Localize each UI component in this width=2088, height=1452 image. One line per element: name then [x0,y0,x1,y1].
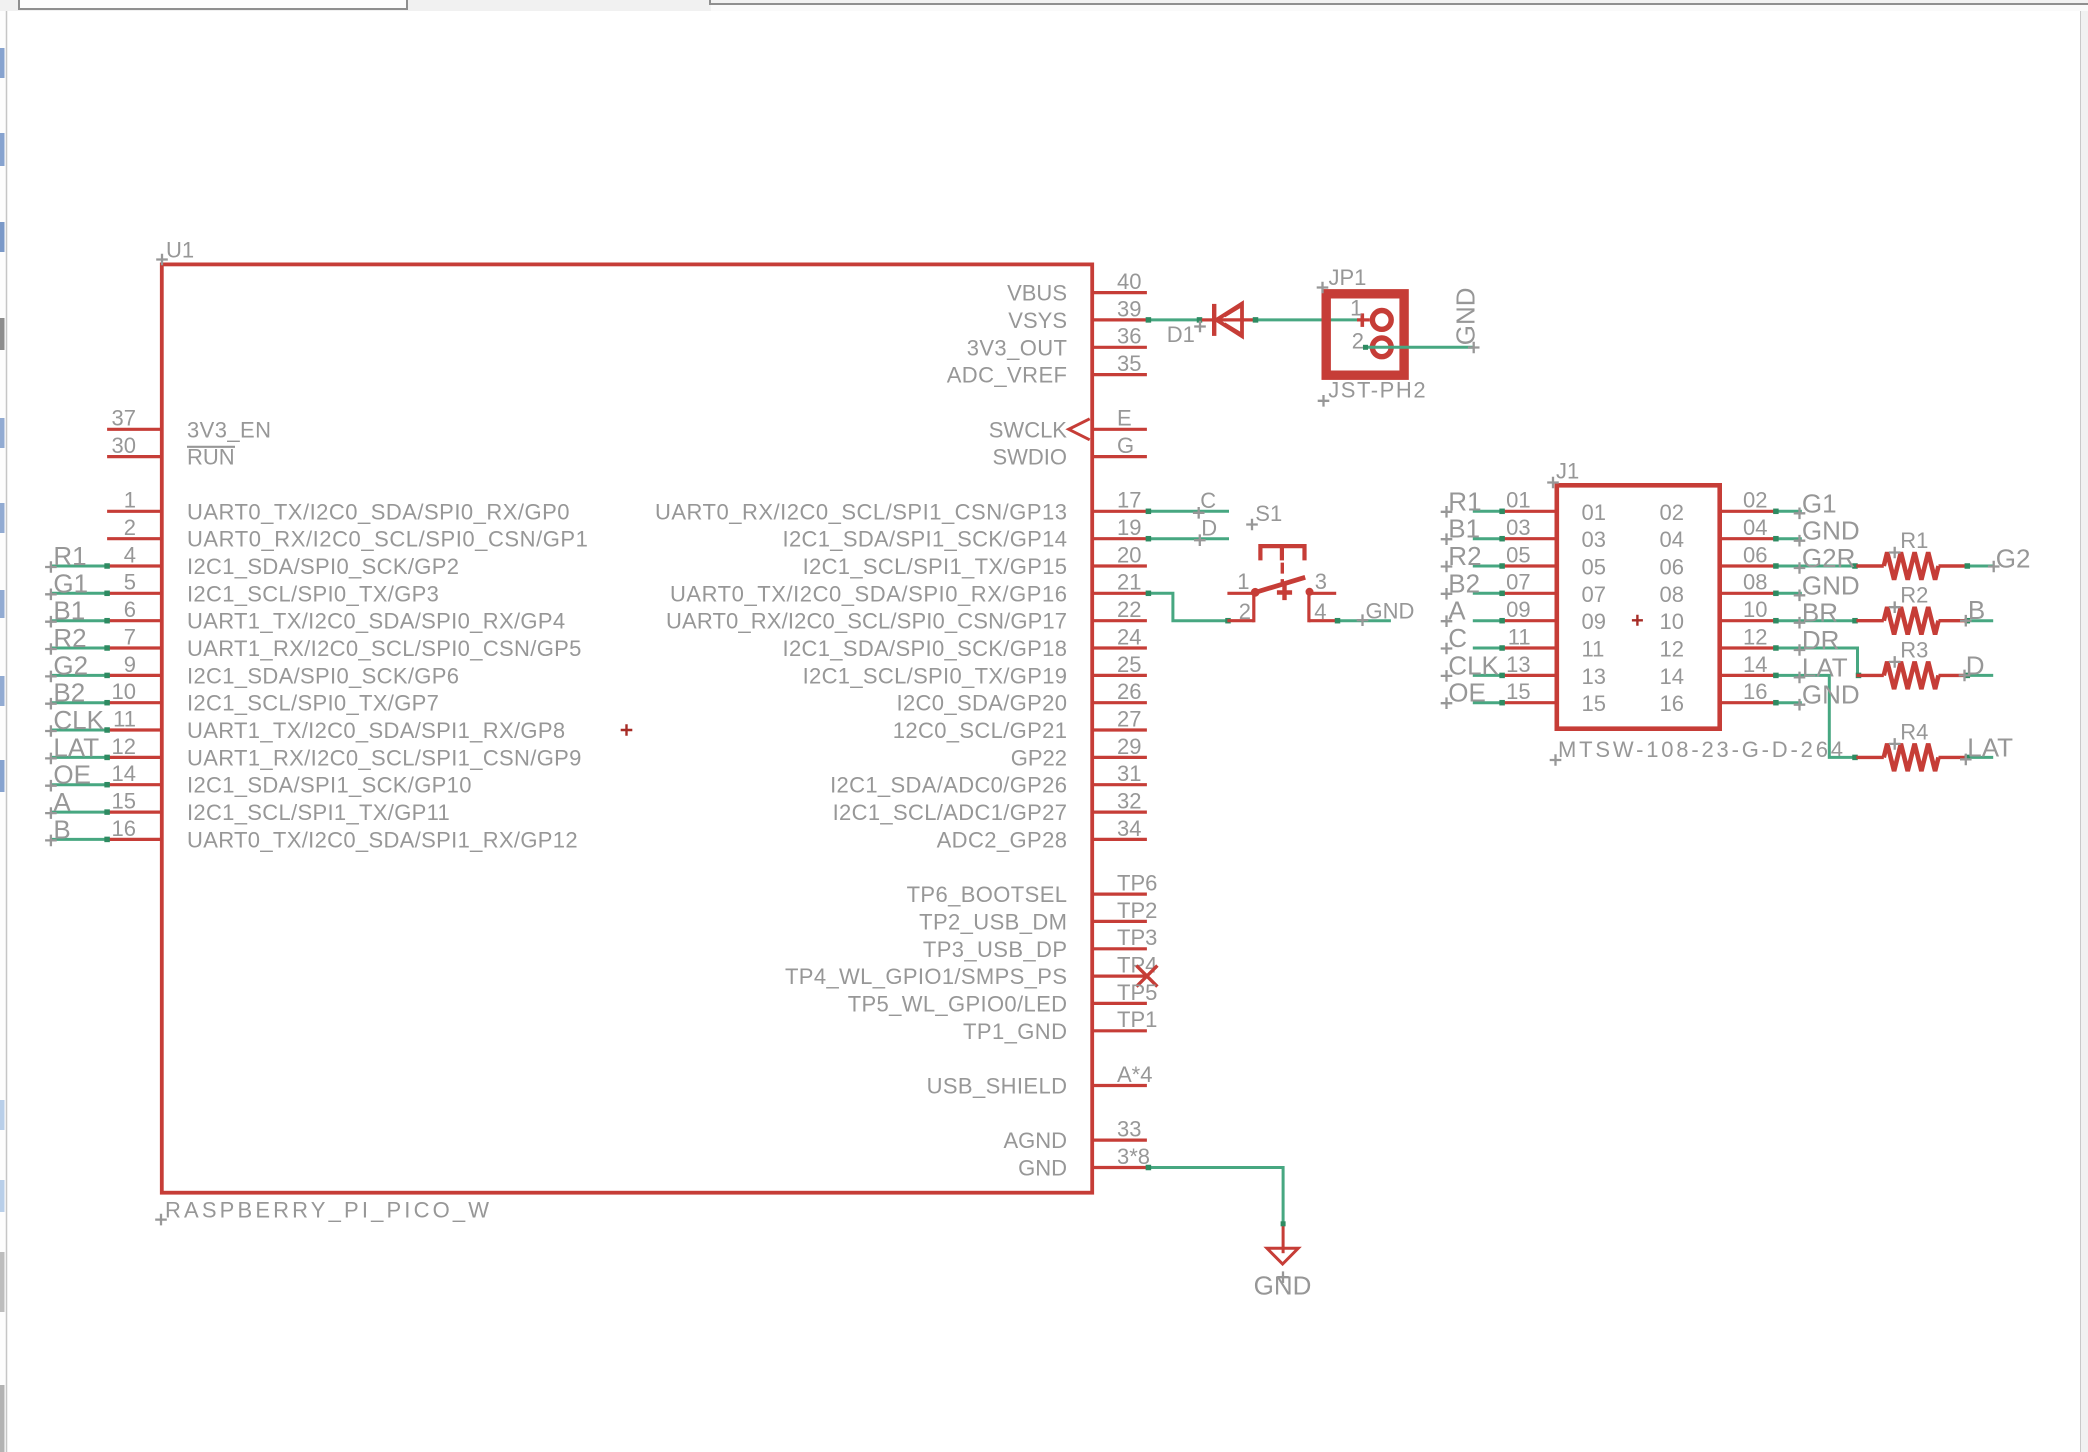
svg-text:1: 1 [1237,569,1249,594]
svg-text:6: 6 [124,597,136,622]
J1 pin 04 (right) [1720,537,1775,540]
svg-text:26: 26 [1117,679,1141,704]
svg-text:DR: DR [1802,625,1840,655]
svg-text:UART1_TX/I2C0_SDA/SPI1_RX/GP8: UART1_TX/I2C0_SDA/SPI1_RX/GP8 [187,718,565,743]
svg-text:32: 32 [1117,789,1141,814]
J1 pin 11 (left) [1502,646,1557,649]
svg-text:C: C [1200,488,1216,513]
wire net A to J1 [1473,619,1502,622]
svg-text:I2C1_SDA/ADC0/GP26: I2C1_SDA/ADC0/GP26 [830,773,1067,798]
wire U1 GP16 to S1 pin 2 [1147,593,1228,620]
svg-text:4: 4 [1314,599,1326,624]
svg-text:TP6_BOOTSEL: TP6_BOOTSEL [907,882,1067,907]
wire net DR from J1 to R3 [1774,648,1861,675]
U1 pin 30 (RUN) [107,455,162,458]
svg-text:E: E [1117,406,1132,431]
svg-text:15: 15 [112,789,136,814]
svg-text:I2C1_SDA/SPI0_SCK/GP18: I2C1_SDA/SPI0_SCK/GP18 [783,636,1068,661]
S1 pin 3 [1309,592,1336,595]
J1 pin 09 (left) [1502,619,1557,622]
svg-text:AGND: AGND [1003,1128,1067,1153]
J1 pin 12 (right) [1720,646,1775,649]
wire net GND from J1 pin 16 [1774,701,1801,704]
tab 2 outline [710,0,2088,4]
wire net A to U1 [51,811,108,814]
svg-text:B1: B1 [53,596,85,626]
svg-text:TP3_USB_DP: TP3_USB_DP [923,937,1067,962]
wire U1 GND to ground symbol [1147,1168,1283,1223]
J1 pin 14 (right) [1720,674,1775,677]
svg-text:4: 4 [124,542,136,567]
J1 pin 01 (left) [1502,510,1557,513]
svg-text:CLK: CLK [1448,650,1499,680]
svg-text:12C0_SCL/GP21: 12C0_SCL/GP21 [893,718,1067,743]
browser tab strip background [0,0,2088,11]
svg-text:29: 29 [1117,734,1141,759]
U1 pin 27 (12C0_SCL/GP21) [1092,728,1147,731]
wire net G1 from J1 [1774,510,1801,513]
svg-text:2: 2 [1352,328,1364,353]
svg-text:B2: B2 [1448,568,1480,598]
U1 pin G (SWDIO) [1092,455,1147,458]
svg-text:TP5_WL_GPIO0/LED: TP5_WL_GPIO0/LED [848,991,1067,1016]
U1 pin 22 (UART0_RX/I2C0_SCL/SPI0_CSN/GP17) [1092,619,1147,622]
U1 pin 20 (I2C1_SCL/SPI1_TX/GP15) [1092,564,1147,567]
svg-text:ADC_VREF: ADC_VREF [947,363,1067,388]
wire net B2 to J1 [1473,592,1502,595]
svg-text:G2: G2 [1996,544,2031,574]
U1 pin TP4 (TP4_WL_GPIO1/SMPS_PS) [1092,974,1147,977]
svg-text:12: 12 [112,734,136,759]
svg-text:01: 01 [1582,500,1606,525]
svg-text:R1: R1 [53,541,86,571]
svg-text:3V3_OUT: 3V3_OUT [967,335,1067,360]
svg-text:LAT: LAT [1967,733,2013,763]
svg-text:UART1_RX/I2C0_SCL/SPI0_CSN/GP5: UART1_RX/I2C0_SCL/SPI0_CSN/GP5 [187,636,581,661]
svg-text:R1: R1 [1448,486,1481,516]
U1 pin 15 (I2C1_SCL/SPI1_TX/GP11) [107,810,162,813]
svg-text:TP1_GND: TP1_GND [963,1019,1067,1044]
J1 pin 07 (left) [1502,592,1557,595]
wire net B1 to J1 [1473,537,1502,540]
J1 pin 05 (left) [1502,564,1557,567]
svg-text:UART0_RX/I2C0_SCL/SPI1_CSN/GP1: UART0_RX/I2C0_SCL/SPI1_CSN/GP13 [655,499,1067,524]
U1 pin 29 (GP22) [1092,756,1147,759]
svg-text:24: 24 [1117,624,1141,649]
svg-text:UART0_RX/I2C0_SCL/SPI0_CSN/GP1: UART0_RX/I2C0_SCL/SPI0_CSN/GP1 [187,527,588,552]
connector JP1 body [1326,294,1404,375]
svg-text:7: 7 [124,624,136,649]
wire net C to J1 [1473,647,1502,650]
svg-text:03: 03 [1582,527,1606,552]
svg-text:3V3_EN: 3V3_EN [187,417,271,442]
svg-text:TP2_USB_DM: TP2_USB_DM [919,909,1067,934]
U1 pin 4 (I2C1_SDA/SPI0_SCK/GP2) [107,564,162,567]
svg-text:TP6: TP6 [1117,871,1157,896]
svg-text:31: 31 [1117,761,1141,786]
svg-text:16: 16 [112,816,136,841]
svg-text:SWDIO: SWDIO [992,445,1067,470]
svg-text:TP2: TP2 [1117,898,1157,923]
svg-text:11: 11 [113,706,136,731]
svg-text:07: 07 [1506,570,1530,595]
connector J1 body [1557,485,1720,728]
wire net BR from J1 to R2 [1774,619,1856,622]
svg-text:1: 1 [1350,296,1362,321]
S1 pin 4 [1309,619,1336,622]
svg-text:TP1: TP1 [1117,1007,1157,1032]
svg-text:UART0_RX/I2C0_SCL/SPI0_CSN/GP1: UART0_RX/I2C0_SCL/SPI0_CSN/GP17 [666,609,1067,634]
svg-text:02: 02 [1660,500,1684,525]
diode D1 [1202,318,1212,321]
resistor R4 [1856,756,1883,759]
svg-text:G: G [1117,433,1134,458]
wire VSYS to D1 [1147,318,1202,321]
svg-text:37: 37 [112,406,136,431]
svg-text:35: 35 [1117,351,1141,376]
wire net GND from J1 pin 08 [1774,592,1801,595]
U1 pin TP5 (TP5_WL_GPIO0/LED) [1092,1002,1147,1005]
JP1 pin 1 pad [1357,318,1370,321]
svg-text:3: 3 [1315,569,1327,594]
svg-text:JST-PH2: JST-PH2 [1328,378,1425,403]
svg-text:OE: OE [53,760,91,790]
JP1 pin 2 pad [1372,338,1391,357]
svg-text:07: 07 [1582,582,1606,607]
svg-text:BR: BR [1802,598,1838,628]
U1 pin TP1 (TP1_GND) [1092,1029,1147,1032]
svg-text:GND: GND [1450,287,1480,345]
U1 pin 39 (VSYS) [1092,318,1147,321]
svg-text:22: 22 [1117,597,1141,622]
svg-text:I2C1_SDA/SPI0_SCK/GP6: I2C1_SDA/SPI0_SCK/GP6 [187,663,459,688]
U1 pin 25 (I2C1_SCL/SPI0_TX/GP19) [1092,674,1147,677]
U1 pin 26 (I2C0_SDA/GP20) [1092,701,1147,704]
svg-text:I2C1_SCL/SPI0_TX/GP7: I2C1_SCL/SPI0_TX/GP7 [187,691,439,716]
svg-text:I2C1_SCL/SPI1_TX/GP15: I2C1_SCL/SPI1_TX/GP15 [803,554,1067,579]
svg-text:S1: S1 [1255,501,1282,526]
wire net R1 to U1 [51,565,108,568]
svg-text:14: 14 [1660,664,1684,689]
svg-text:I2C1_SCL/ADC1/GP27: I2C1_SCL/ADC1/GP27 [833,800,1067,825]
wire net OE to U1 [51,783,108,786]
svg-text:R3: R3 [1900,637,1928,662]
S1 pin 2 [1227,619,1253,622]
svg-text:G2: G2 [53,650,88,680]
svg-text:12: 12 [1743,624,1767,649]
wire net B to U1 [51,838,108,841]
svg-text:GND: GND [1366,599,1415,624]
wire S1 pin 4 to GND label [1336,619,1391,622]
svg-text:02: 02 [1743,488,1767,513]
U1 pin TP6 (TP6_BOOTSEL) [1092,892,1147,895]
svg-text:R1: R1 [1900,528,1928,553]
svg-text:10: 10 [1743,597,1767,622]
J1 pin 08 (right) [1720,592,1775,595]
U1 origin cross [621,724,633,736]
svg-text:VBUS: VBUS [1007,281,1067,306]
svg-text:B2: B2 [53,678,85,708]
J1 pin 06 (right) [1720,564,1775,567]
svg-text:U1: U1 [166,238,194,263]
U1 pin 10 (I2C1_SCL/SPI0_TX/GP7) [107,701,162,704]
svg-text:25: 25 [1117,652,1141,677]
wire net CLK to U1 [51,729,108,732]
svg-text:I2C1_SCL/SPI0_TX/GP3: I2C1_SCL/SPI0_TX/GP3 [187,581,439,606]
U1 pin 33 (AGND) [1092,1138,1147,1141]
wire net CLK to J1 [1473,674,1502,677]
svg-text:GND: GND [1018,1156,1067,1181]
svg-text:I2C1_SCL/SPI1_TX/GP11: I2C1_SCL/SPI1_TX/GP11 [187,800,450,825]
U1 pin TP3 (TP3_USB_DP) [1092,947,1147,950]
svg-text:14: 14 [112,761,136,786]
svg-text:06: 06 [1660,555,1684,580]
U1 pin 17 (UART0_RX/I2C0_SCL/SPI1_CSN/GP13) [1092,510,1147,513]
wire net LAT from resistor [1966,756,1993,759]
svg-text:GND: GND [1802,680,1860,710]
wire net G2 to U1 [51,674,108,677]
svg-text:TP3: TP3 [1117,925,1157,950]
svg-text:USB_SHIELD: USB_SHIELD [927,1074,1067,1099]
svg-text:3*8: 3*8 [1117,1144,1150,1169]
J1 pin 15 (left) [1502,701,1557,704]
U1 pin 19 (I2C1_SDA/SPI1_SCK/GP14) [1092,537,1147,540]
U1 pin 36 (3V3_OUT) [1092,346,1147,349]
svg-text:UART1_RX/I2C0_SCL/SPI1_CSN/GP9: UART1_RX/I2C0_SCL/SPI1_CSN/GP9 [187,745,581,770]
resistor R2 [1856,619,1883,622]
resistor R3 [1856,674,1883,677]
J1 pin 16 (right) [1720,701,1775,704]
wire net B1 to U1 [51,619,108,622]
svg-text:15: 15 [1506,679,1530,704]
svg-text:10: 10 [112,679,136,704]
svg-text:G2R: G2R [1802,543,1855,573]
U1 pin 40 (VBUS) [1092,291,1147,294]
tab 1 outline [19,0,407,9]
svg-text:09: 09 [1506,597,1530,622]
wire net LAT to U1 [51,756,108,759]
U1 pin 7 (UART1_RX/I2C0_SCL/SPI0_CSN/GP5) [107,646,162,649]
svg-text:J1: J1 [1556,459,1579,484]
U1 pin 31 (I2C1_SDA/ADC0/GP26) [1092,783,1147,786]
wire net G2 from resistor [1966,565,1993,568]
svg-text:I2C0_SDA/GP20: I2C0_SDA/GP20 [897,691,1068,716]
U1 pin 37 (3V3_EN) [107,428,162,431]
svg-text:GP22: GP22 [1011,745,1067,770]
svg-text:34: 34 [1117,816,1141,841]
svg-text:5: 5 [124,570,136,595]
U1 pin 14 (I2C1_SDA/SPI1_SCK/GP10) [107,783,162,786]
svg-text:14: 14 [1743,652,1767,677]
IC U1 RASPBERRY_PI_PICO_W body [162,264,1092,1192]
svg-text:20: 20 [1117,542,1141,567]
svg-text:2: 2 [124,515,136,540]
svg-text:9: 9 [124,652,136,677]
U1 pin 9 (I2C1_SDA/SPI0_SCK/GP6) [107,674,162,677]
svg-text:17: 17 [1117,488,1141,513]
svg-text:G1: G1 [1802,488,1837,518]
svg-text:SWCLK: SWCLK [989,417,1068,442]
svg-text:10: 10 [1660,609,1684,634]
SWCLK clock arrow [1069,419,1090,440]
right scrollbar sliver [2081,11,2088,1452]
svg-text:05: 05 [1582,555,1606,580]
U1 pin A*4 (USB_SHIELD) [1092,1084,1147,1087]
svg-text:TP5: TP5 [1117,980,1157,1005]
svg-text:39: 39 [1117,296,1141,321]
svg-text:05: 05 [1506,542,1530,567]
svg-text:R4: R4 [1900,719,1928,744]
U1 pin TP2 (TP2_USB_DM) [1092,920,1147,923]
wire JP1 pin 2 to GND label [1363,346,1473,349]
svg-text:OE: OE [1448,678,1486,708]
S1 lever [1255,577,1305,592]
svg-text:UART0_TX/I2C0_SDA/SPI0_RX/GP16: UART0_TX/I2C0_SDA/SPI0_RX/GP16 [670,581,1067,606]
U1 pin 12 (UART1_RX/I2C0_SCL/SPI1_CSN/GP9) [107,756,162,759]
svg-text:13: 13 [1582,664,1606,689]
wire net D from resistor [1966,674,1993,677]
svg-text:2: 2 [1239,599,1251,624]
U1 pin 34 (ADC2_GP28) [1092,838,1147,841]
svg-text:30: 30 [112,433,136,458]
U1 pin 3*8 (GND) [1092,1166,1147,1169]
U1 pin 21 (UART0_TX/I2C0_SDA/SPI0_RX/GP16) [1092,592,1147,595]
wire net GND from J1 pin 04 [1774,537,1801,540]
wire net OE to J1 [1473,701,1502,704]
svg-text:01: 01 [1506,488,1530,513]
wire net R2 to J1 [1473,565,1502,568]
svg-text:11: 11 [1582,637,1605,662]
wire net R2 to U1 [51,647,108,650]
ground symbol GND [1282,1222,1285,1253]
wire net B from resistor [1966,619,1993,622]
svg-text:04: 04 [1743,515,1767,540]
svg-text:UART0_TX/I2C0_SDA/SPI0_RX/GP0: UART0_TX/I2C0_SDA/SPI0_RX/GP0 [187,499,570,524]
wire net D from U1 [1147,537,1229,540]
svg-text:B1: B1 [1448,514,1480,544]
svg-text:R2: R2 [1448,541,1481,571]
svg-text:I2C1_SCL/SPI0_TX/GP19: I2C1_SCL/SPI0_TX/GP19 [803,663,1067,688]
svg-text:UART1_TX/I2C0_SDA/SPI0_RX/GP4: UART1_TX/I2C0_SDA/SPI0_RX/GP4 [187,609,565,634]
svg-text:16: 16 [1660,691,1684,716]
svg-text:D1: D1 [1167,322,1195,347]
svg-text:36: 36 [1117,324,1141,349]
wire D1 to JP1 pin 1 [1254,318,1363,321]
J1 pin 03 (left) [1502,537,1557,540]
svg-text:G1: G1 [53,568,88,598]
svg-text:12: 12 [1660,637,1684,662]
svg-text:15: 15 [1582,691,1606,716]
wire net G1 to U1 [51,592,108,595]
wire net LAT from J1 to R4 [1774,675,1856,757]
U1 pin 11 (UART1_TX/I2C0_SDA/SPI1_RX/GP8) [107,728,162,731]
wire net R1 to J1 [1473,510,1502,513]
svg-text:LAT: LAT [1802,652,1848,682]
U1 pin 2 (UART0_RX/I2C0_SCL/SPI0_CSN/GP1) [107,537,162,540]
left toolbar sliver [0,11,6,1452]
svg-text:11: 11 [1508,624,1531,649]
U1 pin 16 (UART0_TX/I2C0_SDA/SPI1_RX/GP12) [107,838,162,841]
svg-text:1: 1 [124,488,136,513]
U1 pin E (SWCLK) [1092,428,1147,431]
U1 pin 5 (I2C1_SCL/SPI0_TX/GP3) [107,592,162,595]
S1 pin 1 [1227,592,1253,595]
svg-text:RUN: RUN [187,445,235,470]
U1 pin 32 (I2C1_SCL/ADC1/GP27) [1092,810,1147,813]
U1 pin 35 (ADC_VREF) [1092,373,1147,376]
svg-text:19: 19 [1117,515,1141,540]
U1 pin 6 (UART1_TX/I2C0_SDA/SPI0_RX/GP4) [107,619,162,622]
svg-text:I2C1_SDA/SPI0_SCK/GP2: I2C1_SDA/SPI0_SCK/GP2 [187,554,459,579]
svg-text:I2C1_SDA/SPI1_SCK/GP10: I2C1_SDA/SPI1_SCK/GP10 [187,773,472,798]
resistor R1 [1856,564,1883,567]
wire net G2R from J1 to R1 [1774,565,1856,568]
U1 pin 1 (UART0_TX/I2C0_SDA/SPI0_RX/GP0) [107,510,162,513]
svg-text:33: 33 [1117,1117,1141,1142]
J1 origin cross [1632,615,1643,626]
svg-text:16: 16 [1743,679,1767,704]
svg-text:GND: GND [1802,570,1860,600]
svg-text:13: 13 [1506,652,1530,677]
svg-text:27: 27 [1117,706,1141,731]
svg-text:TP4_WL_GPIO1/SMPS_PS: TP4_WL_GPIO1/SMPS_PS [785,964,1067,989]
wire net C from U1 [1147,510,1229,513]
svg-text:ADC2_GP28: ADC2_GP28 [937,827,1067,852]
svg-text:JP1: JP1 [1329,265,1367,290]
svg-text:CLK: CLK [53,705,104,735]
J1 pin 13 (left) [1502,674,1557,677]
svg-text:R2: R2 [53,623,86,653]
svg-text:08: 08 [1743,570,1767,595]
no-connect X on TP4 [1136,966,1157,987]
svg-text:A*4: A*4 [1117,1062,1152,1087]
RUN overline [187,446,235,448]
svg-text:21: 21 [1117,570,1141,595]
svg-text:VSYS: VSYS [1008,308,1067,333]
svg-text:D: D [1201,515,1217,540]
wire net B2 to U1 [51,701,108,704]
svg-text:GND: GND [1802,516,1860,546]
J1 pin 02 (right) [1720,510,1775,513]
svg-text:08: 08 [1660,582,1684,607]
svg-text:06: 06 [1743,542,1767,567]
svg-text:09: 09 [1582,609,1606,634]
svg-text:R2: R2 [1900,583,1928,608]
U1 pin 24 (I2C1_SDA/SPI0_SCK/GP18) [1092,646,1147,649]
svg-text:I2C1_SDA/SPI1_SCK/GP14: I2C1_SDA/SPI1_SCK/GP14 [783,527,1068,552]
svg-text:03: 03 [1506,515,1530,540]
J1 pin 10 (right) [1720,619,1775,622]
svg-text:40: 40 [1117,269,1141,294]
svg-text:UART0_TX/I2C0_SDA/SPI1_RX/GP12: UART0_TX/I2C0_SDA/SPI1_RX/GP12 [187,827,578,852]
svg-text:LAT: LAT [53,732,99,762]
svg-text:04: 04 [1660,527,1684,552]
